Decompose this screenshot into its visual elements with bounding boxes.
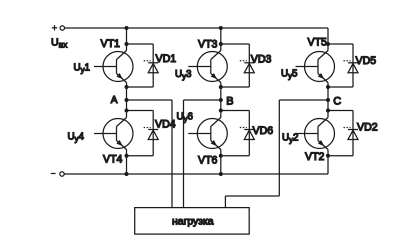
svg-text:Uу3: Uу3 [175, 69, 192, 81]
svg-text:VT3: VT3 [198, 38, 218, 50]
svg-text:Uу5: Uу5 [281, 69, 298, 81]
svg-text:VT2: VT2 [305, 151, 325, 163]
svg-text:Uу1: Uу1 [74, 63, 90, 75]
svg-text:VT4: VT4 [103, 154, 123, 166]
svg-text:VD6: VD6 [253, 125, 274, 137]
svg-text:VD5: VD5 [356, 55, 377, 67]
svg-text:Uу6: Uу6 [177, 112, 194, 124]
svg-text:VT6: VT6 [198, 155, 218, 167]
svg-text:Uу4: Uу4 [68, 132, 85, 144]
svg-text:VD2: VD2 [357, 122, 378, 134]
svg-text:Uу2: Uу2 [282, 133, 298, 145]
svg-text:C: C [333, 96, 341, 108]
svg-text:VT1: VT1 [101, 38, 121, 50]
svg-text:VD4: VD4 [155, 119, 176, 131]
svg-text:VD3: VD3 [251, 54, 272, 66]
svg-text:нагрузка: нагрузка [172, 217, 214, 228]
svg-text:Uвх: Uвх [51, 37, 68, 50]
svg-text:B: B [226, 96, 233, 108]
svg-text:VT5: VT5 [308, 37, 328, 49]
svg-text:A: A [111, 95, 118, 106]
svg-text:VD1: VD1 [156, 53, 177, 65]
